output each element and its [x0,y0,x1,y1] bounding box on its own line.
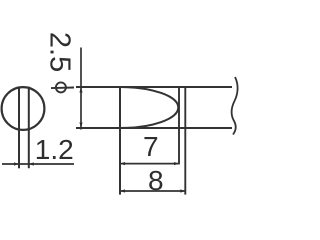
svg-text:8: 8 [148,165,164,196]
svg-text:1.2: 1.2 [35,134,74,165]
svg-text:7: 7 [143,131,159,162]
svg-text:2.5: 2.5 [43,32,75,72]
